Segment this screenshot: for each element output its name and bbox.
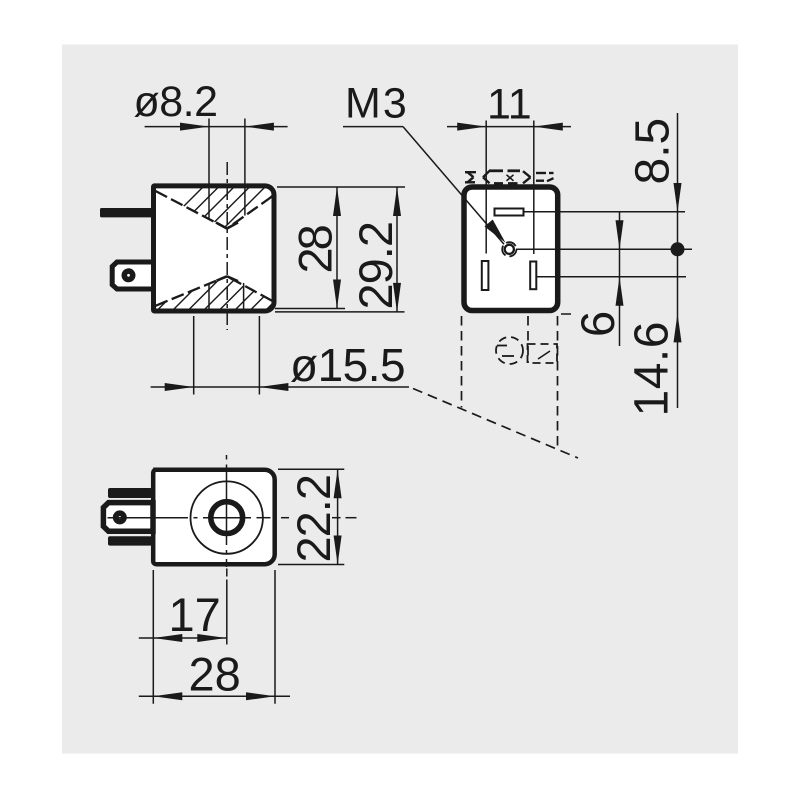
svg-text:8.5: 8.5 <box>627 118 680 185</box>
svg-text:ø8.2: ø8.2 <box>134 78 218 126</box>
svg-text:22.2: 22.2 <box>287 475 340 562</box>
svg-text:14.6: 14.6 <box>626 321 679 416</box>
svg-text:M3: M3 <box>345 80 409 128</box>
svg-text:11: 11 <box>487 81 532 129</box>
svg-text:29.2: 29.2 <box>349 222 402 309</box>
svg-text:ø15.5: ø15.5 <box>290 339 405 391</box>
svg-text:17: 17 <box>169 588 221 641</box>
svg-text:28: 28 <box>289 225 342 273</box>
svg-text:6: 6 <box>571 311 624 337</box>
svg-text:28: 28 <box>189 648 241 701</box>
